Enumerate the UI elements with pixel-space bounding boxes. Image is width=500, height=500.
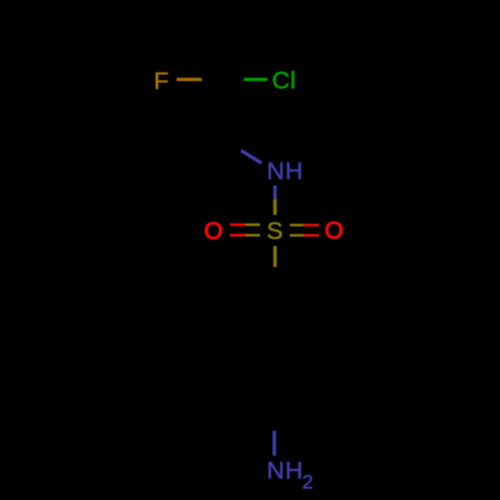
- double bond S=O right, upper line (S half): [290, 224, 304, 227]
- svg-text:O: O: [325, 218, 344, 245]
- double bond S=O right, lower line (O half): [304, 234, 319, 237]
- bond C6-N amine (N half): [273, 431, 276, 456]
- bond C2-N (N half): [241, 151, 262, 164]
- double bond S=O left, lower line (S half): [245, 234, 260, 237]
- double bond S=O right, upper line (O half): [304, 224, 319, 227]
- bond F-C1 (F half): [177, 78, 202, 81]
- bond C1-Cl (Cl half): [244, 78, 268, 81]
- bond S-C3 ring (S half): [273, 246, 276, 267]
- bond N-S (N half): [273, 186, 276, 200]
- svg-text:O: O: [204, 218, 223, 245]
- svg-text:NH: NH: [267, 158, 304, 185]
- svg-text:S: S: [267, 218, 283, 245]
- svg-text:2: 2: [302, 472, 313, 494]
- bond N-S (S half): [273, 199, 276, 215]
- double bond S=O left, upper line (O half): [230, 223, 245, 226]
- svg-text:F: F: [154, 68, 169, 95]
- svg-text:NH: NH: [267, 458, 304, 485]
- svg-text:Cl: Cl: [272, 68, 296, 95]
- double bond S=O right, lower line (S half): [290, 234, 304, 237]
- double bond S=O left, lower line (O half): [230, 234, 245, 237]
- double bond S=O left, upper line (S half): [245, 223, 260, 226]
